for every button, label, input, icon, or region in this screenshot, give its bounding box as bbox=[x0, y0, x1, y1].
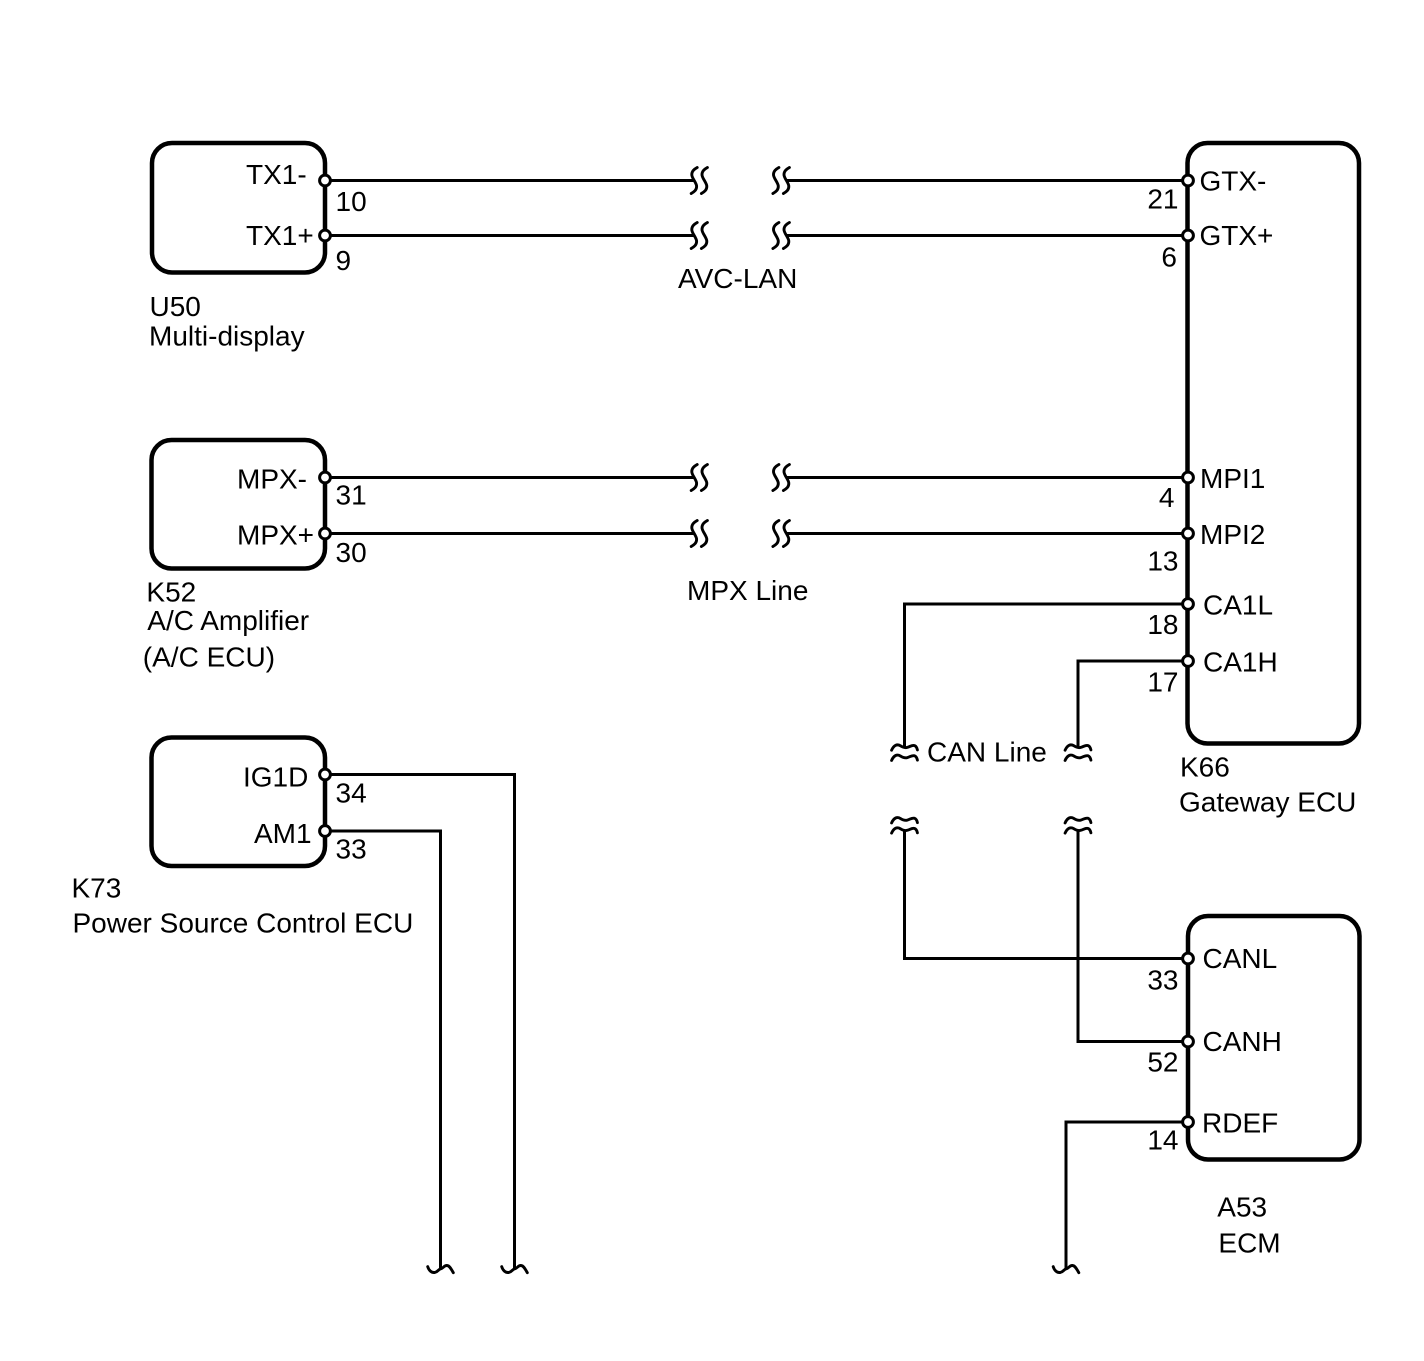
svg-text:MPX+: MPX+ bbox=[237, 519, 314, 550]
pin number 31 bbox=[336, 479, 367, 510]
pin label AM1 bbox=[254, 818, 312, 849]
svg-text:10: 10 bbox=[336, 186, 367, 217]
pin label TX1+ bbox=[246, 220, 314, 251]
pin MPX- terminal bbox=[320, 472, 331, 483]
wire CA1H upper segment bbox=[1078, 661, 1188, 748]
svg-text:IG1D: IG1D bbox=[243, 762, 308, 793]
svg-text:CAN Line: CAN Line bbox=[927, 737, 1047, 768]
svg-text:MPX Line: MPX Line bbox=[687, 575, 808, 606]
wire AM1 down bbox=[325, 831, 441, 1270]
label K66 bbox=[1180, 752, 1230, 783]
pin AM1 terminal bbox=[320, 826, 331, 837]
break symbol on MPX- wire left pair bbox=[691, 465, 707, 491]
svg-text:AM1: AM1 bbox=[254, 818, 312, 849]
wire MPX+ to MPI2 right segment bbox=[786, 532, 1188, 535]
pin label CA1L bbox=[1203, 589, 1273, 620]
svg-text:GTX-: GTX- bbox=[1200, 166, 1267, 197]
pin number 52 bbox=[1147, 1046, 1178, 1077]
wire CA1L upper segment bbox=[905, 604, 1189, 748]
svg-text:ECM: ECM bbox=[1218, 1227, 1280, 1258]
svg-text:K52: K52 bbox=[146, 577, 196, 608]
pin label TX1- bbox=[246, 159, 307, 190]
pin MPI2 terminal bbox=[1183, 528, 1194, 539]
wire MPX- to MPI1 left segment bbox=[325, 476, 694, 479]
svg-text:13: 13 bbox=[1147, 546, 1178, 577]
svg-text:18: 18 bbox=[1147, 609, 1178, 640]
svg-text:A/C Amplifier: A/C Amplifier bbox=[147, 605, 309, 636]
label Multi-display bbox=[149, 320, 305, 351]
pin RDEF terminal bbox=[1183, 1117, 1194, 1128]
svg-text:MPX-: MPX- bbox=[237, 463, 307, 494]
pin TX1+ terminal bbox=[320, 230, 331, 241]
svg-text:Multi-display: Multi-display bbox=[149, 320, 305, 351]
svg-text:TX1+: TX1+ bbox=[246, 220, 314, 251]
svg-text:17: 17 bbox=[1147, 667, 1178, 698]
svg-text:(A/C ECU): (A/C ECU) bbox=[143, 641, 275, 672]
label U50 bbox=[150, 291, 201, 322]
wire CA1L lower segment to CANL bbox=[905, 831, 1189, 959]
wire MPX+ to MPI2 left segment bbox=[325, 532, 694, 535]
break symbol on MPX+ wire left pair bbox=[691, 521, 707, 547]
break symbol on CA1H wire upper pair bbox=[1065, 745, 1091, 761]
pin number 33 bbox=[336, 834, 367, 865]
pin label GTX+ bbox=[1200, 220, 1274, 251]
label K73 bbox=[72, 872, 122, 903]
break symbol on MPX- wire right pair bbox=[773, 465, 790, 491]
pin TX1- terminal bbox=[320, 175, 331, 186]
svg-text:CA1H: CA1H bbox=[1203, 646, 1278, 677]
pin label CANL bbox=[1203, 943, 1278, 974]
wire CA1H lower segment to CANH bbox=[1078, 831, 1188, 1042]
svg-text:MPI2: MPI2 bbox=[1200, 519, 1265, 550]
svg-text:9: 9 bbox=[336, 245, 352, 276]
pin CANH terminal bbox=[1183, 1036, 1194, 1047]
component A53 ECM box bbox=[1188, 916, 1360, 1160]
net label CAN Line bbox=[927, 737, 1047, 768]
break symbol at RDEF wire end bbox=[1053, 1265, 1079, 1272]
pin number 9 bbox=[336, 245, 352, 276]
svg-text:33: 33 bbox=[336, 834, 367, 865]
break symbol at IG1D wire end bbox=[502, 1265, 528, 1272]
pin IG1D terminal bbox=[320, 769, 331, 780]
label K52 bbox=[146, 577, 196, 608]
svg-text:21: 21 bbox=[1147, 183, 1178, 214]
svg-text:AVC-LAN: AVC-LAN bbox=[678, 263, 797, 294]
wire IG1D down bbox=[325, 775, 515, 1271]
pin label CANH bbox=[1203, 1026, 1282, 1057]
label (A/C ECU) bbox=[143, 641, 275, 672]
pin MPI1 terminal bbox=[1183, 472, 1194, 483]
pin number 18 bbox=[1147, 609, 1178, 640]
pin MPX+ terminal bbox=[320, 528, 331, 539]
svg-text:U50: U50 bbox=[150, 291, 201, 322]
svg-text:MPI1: MPI1 bbox=[1200, 463, 1265, 494]
wire TX1- to GTX- left segment bbox=[325, 179, 694, 182]
pin number 34 bbox=[336, 778, 367, 809]
label Gateway ECU bbox=[1179, 786, 1356, 817]
svg-text:K73: K73 bbox=[72, 872, 122, 903]
pin label MPX- bbox=[237, 463, 307, 494]
svg-text:34: 34 bbox=[336, 778, 367, 809]
svg-text:K66: K66 bbox=[1180, 752, 1230, 783]
break symbol on TX1- wire right pair bbox=[773, 168, 790, 194]
pin number 33 ECM bbox=[1147, 964, 1178, 995]
net label AVC-LAN bbox=[678, 263, 797, 294]
break symbol on TX1+ wire left pair bbox=[691, 223, 707, 249]
pin label MPX+ bbox=[237, 519, 314, 550]
pin label GTX- bbox=[1200, 166, 1267, 197]
pin CA1L terminal bbox=[1183, 599, 1194, 610]
svg-text:TX1-: TX1- bbox=[246, 159, 307, 190]
pin number 21 bbox=[1147, 183, 1178, 214]
pin label MPI2 bbox=[1200, 519, 1265, 550]
pin number 17 bbox=[1147, 667, 1178, 698]
net label MPX Line bbox=[687, 575, 808, 606]
break symbol on CA1H wire lower pair bbox=[1065, 818, 1091, 834]
pin label CA1H bbox=[1203, 646, 1278, 677]
svg-text:CA1L: CA1L bbox=[1203, 589, 1273, 620]
component U50 Multi-display box bbox=[152, 143, 325, 273]
wire MPX- to MPI1 right segment bbox=[786, 476, 1188, 479]
pin label RDEF bbox=[1202, 1108, 1278, 1139]
wire TX1+ to GTX+ left segment bbox=[325, 234, 694, 237]
pin number 6 bbox=[1161, 242, 1177, 273]
label A53 bbox=[1217, 1192, 1267, 1223]
svg-text:Power Source Control ECU: Power Source Control ECU bbox=[73, 907, 414, 938]
svg-text:4: 4 bbox=[1159, 482, 1175, 513]
svg-text:6: 6 bbox=[1161, 242, 1177, 273]
break symbol on TX1+ wire right pair bbox=[773, 223, 790, 249]
pin number 13 bbox=[1147, 546, 1178, 577]
svg-text:33: 33 bbox=[1147, 964, 1178, 995]
pin label IG1D bbox=[243, 762, 308, 793]
pin GTX+ terminal bbox=[1183, 230, 1194, 241]
svg-text:Gateway ECU: Gateway ECU bbox=[1179, 786, 1356, 817]
label Power Source Control ECU bbox=[73, 907, 414, 938]
pin label MPI1 bbox=[1200, 463, 1265, 494]
break symbol on CA1L wire lower pair bbox=[892, 818, 918, 834]
wire TX1- to GTX- right segment bbox=[786, 179, 1188, 182]
break symbol on TX1- wire left pair bbox=[691, 168, 707, 194]
break symbol on CA1L wire upper pair bbox=[892, 745, 918, 761]
break symbol at AM1 wire end bbox=[428, 1265, 454, 1272]
component K52 A/C Amplifier box bbox=[152, 440, 326, 569]
pin number 10 bbox=[336, 186, 367, 217]
wire TX1+ to GTX+ right segment bbox=[786, 234, 1188, 237]
svg-text:GTX+: GTX+ bbox=[1200, 220, 1274, 251]
pin CA1H terminal bbox=[1183, 656, 1194, 667]
pin number 14 bbox=[1147, 1125, 1178, 1156]
break symbol on MPX+ wire right pair bbox=[773, 521, 790, 547]
svg-text:14: 14 bbox=[1147, 1125, 1178, 1156]
pin CANL terminal bbox=[1183, 953, 1194, 964]
component K66 Gateway ECU box bbox=[1188, 143, 1360, 744]
svg-text:CANL: CANL bbox=[1203, 943, 1278, 974]
label A/C Amplifier bbox=[147, 605, 309, 636]
pin number 30 bbox=[336, 537, 367, 568]
svg-text:A53: A53 bbox=[1217, 1192, 1267, 1223]
pin GTX- terminal bbox=[1183, 175, 1194, 186]
svg-text:RDEF: RDEF bbox=[1202, 1108, 1278, 1139]
label ECM bbox=[1218, 1227, 1280, 1258]
svg-text:52: 52 bbox=[1147, 1046, 1178, 1077]
svg-text:31: 31 bbox=[336, 479, 367, 510]
wire RDEF down bbox=[1066, 1122, 1188, 1270]
pin number 4 bbox=[1159, 482, 1175, 513]
svg-text:CANH: CANH bbox=[1203, 1026, 1282, 1057]
svg-text:30: 30 bbox=[336, 537, 367, 568]
component K73 Power Source Control ECU box bbox=[152, 738, 326, 867]
